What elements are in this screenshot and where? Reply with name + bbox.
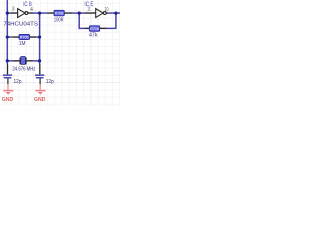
inverter gate IC B (74HCU04)	[18, 9, 28, 18]
background	[0, 0, 120, 106]
wire: net into gate B input	[7, 12, 10, 14]
pin lead: gate B output	[28, 12, 33, 14]
resistor 100R	[54, 10, 64, 23]
svg-text:47k: 47k	[89, 33, 98, 39]
pin lead: gate E input	[84, 12, 95, 14]
svg-text:74HCU04TS: 74HCU04TS	[3, 22, 38, 28]
grid	[0, 0, 120, 106]
svg-text:3: 3	[12, 7, 15, 13]
svg-text:GND: GND	[2, 97, 13, 103]
svg-text:R705: R705	[20, 36, 29, 40]
pin lead: gate E output	[106, 12, 108, 14]
wire: crystal row left net	[7, 60, 13, 62]
wire: net to gate E input	[72, 12, 84, 14]
pin lead: R(1M) right	[30, 36, 37, 38]
junction: pin3 / left rail	[6, 12, 9, 15]
wire: feedback loop right leg	[107, 13, 116, 28]
junction: gate B output / middle rail	[38, 12, 41, 15]
pin lead: gate B input	[10, 12, 17, 14]
junction: 1M left	[6, 35, 9, 38]
pin lead: R(47k) right	[100, 27, 107, 29]
pin lead: R(100R) right	[64, 12, 72, 14]
ground GND (right)	[34, 84, 46, 103]
svg-text:R706: R706	[55, 11, 64, 15]
junction: crystal right	[38, 59, 41, 62]
resistor 1M	[19, 35, 30, 48]
pin lead: R(47k) left	[84, 27, 89, 29]
pin lead: crystal left	[14, 60, 20, 62]
resistor 47k	[89, 26, 100, 39]
junction: 1M right	[38, 35, 41, 38]
svg-text:1M: 1M	[19, 41, 26, 47]
crystal 24.576MHz	[12, 57, 35, 73]
inverter gate IC E (74HCU04)	[96, 9, 107, 18]
junction: crystal left	[6, 59, 9, 62]
svg-text:100R: 100R	[54, 18, 64, 24]
svg-text:4: 4	[30, 7, 33, 13]
wire: gate E output net to right edge	[109, 12, 120, 14]
capacitor C2 12p	[35, 75, 54, 85]
svg-text:GND: GND	[34, 97, 45, 103]
wire: left rail (net)	[6, 0, 8, 64]
svg-text:11: 11	[87, 7, 90, 13]
svg-text:24.576 MHz: 24.576 MHz	[12, 67, 35, 73]
svg-text:12p: 12p	[46, 79, 54, 85]
junction: gate E output branch	[114, 12, 117, 15]
pin lead: R(1M) left	[12, 36, 19, 38]
pin lead: R(100R) left	[48, 12, 55, 14]
svg-text:10: 10	[105, 7, 109, 13]
pin lead: C2 top	[39, 64, 41, 74]
wire: gate B output net	[33, 12, 48, 14]
pin lead: crystal right	[26, 60, 33, 62]
pin lead: C1 top	[7, 64, 9, 74]
wire: 1M row right net	[37, 36, 40, 38]
junction: gate E input branch	[78, 12, 81, 15]
ground GND (left)	[2, 84, 14, 103]
svg-text:12p: 12p	[14, 79, 22, 85]
wire: feedback loop left leg	[79, 13, 84, 28]
svg-text:R708: R708	[90, 27, 99, 31]
wire: crystal row right net	[33, 60, 40, 62]
wire: 1M row left net	[7, 36, 12, 38]
capacitor C1 12p	[3, 75, 22, 85]
wire: middle rail (net)	[39, 13, 41, 64]
